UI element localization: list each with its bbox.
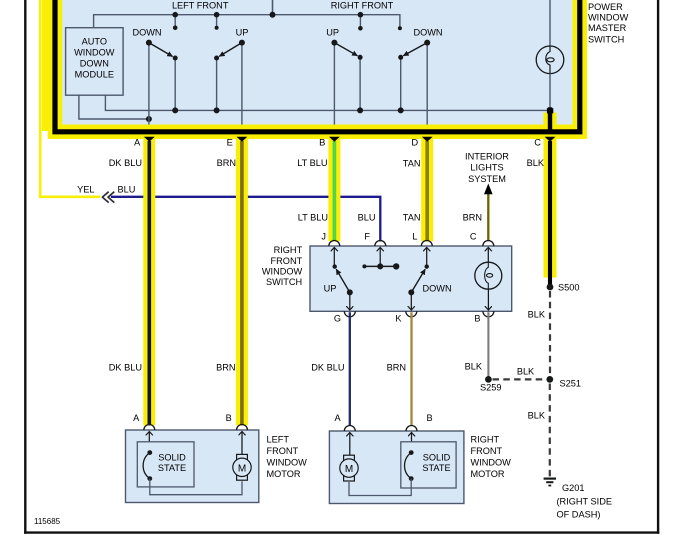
master switch border bbox=[55, 0, 580, 132]
svg-text:LT BLU: LT BLU bbox=[298, 212, 328, 222]
svg-text:FRONT: FRONT bbox=[471, 446, 503, 456]
wire BLK pin B to S259 bbox=[487, 312, 489, 379]
wire module to common bus1 bbox=[105, 95, 550, 110]
pin A arrow (left motor) bbox=[148, 432, 150, 453]
svg-text:OF DASH): OF DASH) bbox=[557, 510, 601, 520]
svg-text:WINDOW: WINDOW bbox=[267, 458, 308, 468]
connector pin L bump bbox=[421, 241, 432, 246]
svg-text:M: M bbox=[345, 464, 353, 475]
splice S500 bbox=[547, 284, 554, 291]
node stub B+ for left-front up contact bbox=[216, 15, 218, 28]
connector pin G bump bbox=[344, 311, 355, 317]
connector pin B bump bbox=[483, 311, 494, 317]
wire solid state to motor M (left) bbox=[150, 479, 242, 495]
svg-text:BLU: BLU bbox=[118, 185, 136, 195]
master switch left border outer yellow glow bbox=[42, 0, 51, 131]
svg-text:TAN: TAN bbox=[403, 159, 421, 169]
svg-text:BLK: BLK bbox=[528, 411, 546, 421]
svg-text:DOWN: DOWN bbox=[132, 28, 161, 38]
switch left front DOWN pivot wire to pin A bbox=[148, 43, 150, 131]
svg-text:A: A bbox=[334, 413, 341, 423]
wire BRN pin E to left motor (yellow highlight) bbox=[236, 133, 248, 425]
svg-text:DK BLU: DK BLU bbox=[109, 363, 142, 373]
connector in-line to YEL wire (double chevron) bbox=[102, 192, 114, 203]
pin A arrow (right motor) bbox=[349, 433, 351, 456]
svg-text:BRN: BRN bbox=[463, 212, 482, 222]
master switch border yellow highlight bbox=[55, 0, 580, 132]
wire BLK dashed S500 to S251 bbox=[549, 291, 551, 376]
wire battery feed into top bus bbox=[272, 0, 274, 15]
connector pin A of master switch bbox=[144, 137, 155, 142]
pin B arrow (down from lamp) bbox=[487, 289, 489, 310]
left front window motor box bbox=[126, 430, 259, 503]
svg-text:S259: S259 bbox=[480, 383, 501, 393]
svg-text:C: C bbox=[534, 137, 541, 148]
junction node bus1 / lamp / pin C bbox=[547, 108, 553, 113]
solid state arc (right motor) bbox=[405, 453, 412, 479]
switch left front UP pivot wire to pin E bbox=[241, 43, 243, 131]
junction node bus2 / pin A wire bbox=[146, 116, 152, 122]
svg-text:POWER: POWER bbox=[588, 2, 623, 12]
right front window switch box bbox=[310, 246, 512, 311]
wire pin F common rail bbox=[364, 265, 396, 267]
svg-text:BRN: BRN bbox=[216, 363, 235, 373]
svg-text:SYSTEM: SYSTEM bbox=[468, 174, 506, 184]
wire TAN pin D to switch pin L (yellow highlight) bbox=[421, 133, 433, 241]
svg-text:(RIGHT SIDE: (RIGHT SIDE bbox=[557, 497, 612, 507]
wire lamp to bus1 junction bbox=[549, 74, 551, 111]
switch left front UP arm bbox=[219, 43, 242, 57]
svg-text:SWITCH: SWITCH bbox=[266, 277, 302, 287]
splice S251 bbox=[546, 376, 553, 383]
wire BLU horizontal to pin F bbox=[111, 197, 381, 242]
svg-text:SOLID: SOLID bbox=[158, 452, 186, 462]
switch right front DOWN contact to bus1 bbox=[400, 57, 402, 110]
svg-text:E: E bbox=[227, 137, 233, 148]
wire BLK pin C to S500 (yellow highlight) bbox=[544, 113, 557, 129]
svg-text:WINDOW: WINDOW bbox=[471, 458, 512, 468]
svg-text:BRN: BRN bbox=[217, 158, 236, 168]
wire solid state to motor M (right) bbox=[349, 479, 411, 496]
wire top bus in master switch bbox=[94, 15, 400, 29]
solid state box (right motor) bbox=[401, 442, 456, 488]
right front window motor box bbox=[329, 431, 464, 504]
connector pin A bump (right motor) bbox=[344, 426, 355, 431]
pin K arrow (down) bbox=[410, 292, 412, 309]
switch left front UP contact to bus1 bbox=[216, 58, 218, 110]
pin L arrow bbox=[426, 248, 428, 267]
wire BRN to interior lights system with arrow bbox=[487, 193, 489, 241]
motor M (right) bbox=[344, 455, 355, 461]
illumination lamp feed wire bbox=[549, 0, 551, 46]
solid state arc (left motor) bbox=[143, 453, 150, 479]
svg-text:MOTOR: MOTOR bbox=[471, 469, 505, 479]
svg-text:S251: S251 bbox=[560, 378, 581, 388]
svg-text:BLK: BLK bbox=[517, 366, 535, 376]
pin F arrow bbox=[379, 248, 381, 267]
splice S259 bbox=[485, 376, 492, 383]
svg-text:C: C bbox=[470, 232, 477, 242]
connector pin E of master switch bbox=[237, 137, 248, 142]
pin B arrow (left motor) bbox=[241, 432, 243, 455]
connector pin B bump (left motor) bbox=[237, 425, 248, 430]
svg-text:MOTOR: MOTOR bbox=[267, 469, 301, 479]
svg-text:A: A bbox=[133, 413, 140, 423]
connector pin C bump bbox=[483, 241, 494, 246]
connector pin K bump bbox=[406, 311, 417, 317]
switch left front DOWN contact to bus1 bbox=[174, 58, 176, 110]
svg-text:DOWN: DOWN bbox=[413, 28, 442, 38]
svg-text:WINDOW: WINDOW bbox=[588, 13, 629, 23]
svg-text:A: A bbox=[134, 137, 141, 148]
svg-text:STATE: STATE bbox=[158, 463, 186, 473]
pin G arrow (down) bbox=[349, 292, 351, 309]
svg-text:S500: S500 bbox=[558, 282, 579, 292]
svg-text:BLK: BLK bbox=[527, 158, 545, 168]
svg-text:FRONT: FRONT bbox=[267, 446, 299, 456]
svg-text:D: D bbox=[411, 137, 418, 148]
svg-text:RIGHT: RIGHT bbox=[274, 245, 303, 255]
wire DK BLU pin G to right motor pin A bbox=[349, 312, 351, 425]
svg-text:BLK: BLK bbox=[465, 362, 483, 372]
wire module to bus2 (pin A net) bbox=[79, 95, 149, 119]
svg-text:DOWN: DOWN bbox=[80, 58, 109, 68]
wire YEL from master switch down-left to connector bbox=[40, 0, 100, 197]
illumination lamp (right front switch) bbox=[475, 262, 502, 289]
svg-text:BLU: BLU bbox=[358, 212, 376, 222]
wire BLK dashed S251 to G201 bbox=[549, 384, 551, 477]
switch right front UP pivot wire to pin B bbox=[333, 43, 335, 131]
svg-text:MODULE: MODULE bbox=[75, 70, 114, 80]
connector pin C of master switch bbox=[545, 137, 556, 142]
switch left front DOWN arm bbox=[149, 43, 173, 57]
auto window down module box bbox=[66, 28, 124, 96]
page border bottom bbox=[24, 531, 659, 533]
svg-text:YEL: YEL bbox=[77, 185, 94, 195]
svg-text:INTERIOR: INTERIOR bbox=[465, 152, 509, 162]
svg-text:G: G bbox=[334, 313, 341, 323]
svg-text:L: L bbox=[412, 232, 417, 242]
svg-text:LT BLU: LT BLU bbox=[297, 158, 327, 168]
svg-text:FRONT: FRONT bbox=[271, 256, 303, 266]
wire DK BLU pin A to left motor (yellow highlight) bbox=[143, 133, 155, 425]
wire LT BLU pin B to switch pin J (yellow highlight) bbox=[328, 133, 340, 241]
wire BRN pin K to right motor pin B bbox=[410, 312, 412, 425]
svg-text:B: B bbox=[319, 137, 325, 148]
svg-text:UP: UP bbox=[326, 28, 339, 38]
connector pin B of master switch bbox=[329, 137, 340, 142]
illumination lamp (master switch) bbox=[536, 46, 564, 74]
svg-text:UP: UP bbox=[236, 28, 249, 38]
connector pin A bump (left motor) bbox=[144, 425, 155, 430]
ground G201 bbox=[544, 478, 556, 480]
pin B arrow (right motor) bbox=[411, 433, 413, 453]
svg-text:BLK: BLK bbox=[528, 310, 546, 320]
svg-text:SWITCH: SWITCH bbox=[588, 34, 624, 44]
svg-text:BRN: BRN bbox=[387, 363, 406, 373]
page border right bbox=[657, 0, 659, 534]
power window master switch box fill bbox=[55, 0, 580, 131]
connector pin D of master switch bbox=[422, 137, 433, 142]
svg-text:SOLID: SOLID bbox=[423, 452, 451, 462]
svg-text:LEFT FRONT: LEFT FRONT bbox=[172, 1, 229, 11]
svg-text:F: F bbox=[364, 232, 370, 242]
connector pin J bump bbox=[329, 241, 340, 246]
pin C arrow bbox=[487, 248, 489, 263]
switch right front UP contact to bus1 bbox=[359, 57, 361, 110]
solid state box (left motor) bbox=[137, 442, 194, 487]
svg-text:DK BLU: DK BLU bbox=[109, 158, 142, 168]
motor M (left) bbox=[237, 454, 248, 460]
svg-text:MASTER: MASTER bbox=[588, 23, 627, 33]
svg-text:115685: 115685 bbox=[34, 517, 61, 526]
svg-text:DOWN: DOWN bbox=[423, 283, 452, 293]
svg-text:STATE: STATE bbox=[422, 463, 450, 473]
wire BLK dashed S259 to S251 bbox=[493, 378, 547, 380]
page border left bbox=[24, 0, 26, 534]
svg-text:WINDOW: WINDOW bbox=[262, 266, 303, 276]
svg-text:AUTO: AUTO bbox=[82, 37, 107, 47]
svg-text:B: B bbox=[474, 313, 480, 323]
svg-text:WINDOW: WINDOW bbox=[74, 48, 115, 58]
svg-text:TAN: TAN bbox=[403, 212, 421, 222]
svg-text:RIGHT: RIGHT bbox=[471, 435, 500, 445]
node stub B+ for right-front down contact bbox=[398, 26, 402, 30]
svg-text:J: J bbox=[321, 232, 326, 242]
node stub B+ for right-front up contact bbox=[359, 15, 361, 29]
node stub B+ for left-front down contact bbox=[174, 15, 176, 28]
connector pin B bump (right motor) bbox=[406, 426, 417, 431]
svg-text:M: M bbox=[238, 463, 246, 474]
svg-text:G201: G201 bbox=[562, 483, 584, 493]
svg-text:LIGHTS: LIGHTS bbox=[470, 163, 503, 173]
switch right front DOWN arm (master) bbox=[403, 43, 427, 56]
svg-text:B: B bbox=[226, 413, 232, 423]
svg-text:K: K bbox=[395, 313, 402, 323]
switch right front DOWN pivot wire to pin D bbox=[426, 43, 428, 131]
svg-text:DK BLU: DK BLU bbox=[311, 363, 344, 373]
svg-text:UP: UP bbox=[324, 283, 337, 293]
pin J arrow bbox=[333, 248, 335, 267]
connector pin F bump bbox=[375, 241, 386, 246]
svg-text:LEFT: LEFT bbox=[267, 435, 290, 445]
svg-text:B: B bbox=[426, 413, 432, 423]
svg-text:RIGHT FRONT: RIGHT FRONT bbox=[331, 1, 394, 11]
switch right front UP arm (master) bbox=[334, 43, 357, 56]
